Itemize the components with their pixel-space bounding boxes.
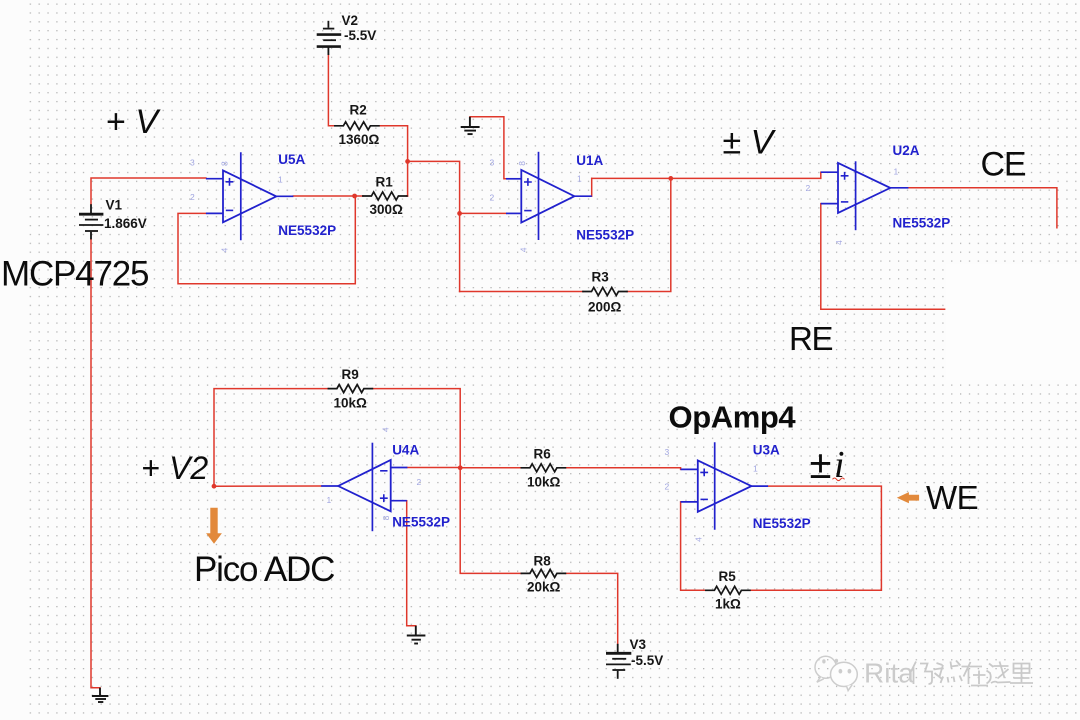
wire U1A output to U2A plus xyxy=(592,172,821,178)
svg-text:1kΩ: 1kΩ xyxy=(715,597,741,612)
svg-text:NE5532P: NE5532P xyxy=(576,228,634,243)
svg-text:3: 3 xyxy=(190,158,195,168)
svg-text:Rita: Rita xyxy=(864,658,914,689)
wire U4A plus down to ground G2 xyxy=(407,501,416,626)
wire U4A output to node B xyxy=(214,485,321,487)
svg-text:OpAmp4: OpAmp4 xyxy=(669,399,797,434)
resistor R9 xyxy=(328,385,372,393)
svg-text:R8: R8 xyxy=(534,554,552,569)
wire U2A minus to RE stub xyxy=(821,204,945,310)
svg-text:1: 1 xyxy=(753,464,758,474)
svg-text:MCP4725: MCP4725 xyxy=(1,255,148,294)
wire U2A output to CE xyxy=(908,188,1057,228)
resistor R8 xyxy=(521,569,565,577)
ground G2 (U4A plus input) xyxy=(407,626,426,644)
svg-text:1: 1 xyxy=(894,167,899,177)
wire U3A output loop to R5 xyxy=(750,486,882,590)
junction node C U4A minus xyxy=(458,465,463,470)
svg-text:V1: V1 xyxy=(106,198,123,213)
op-amp U5A xyxy=(206,152,294,240)
op-amp U2A xyxy=(821,161,909,230)
orange arrow down (Pico ADC) xyxy=(206,508,222,544)
resistor R5 xyxy=(706,586,750,594)
svg-text:2: 2 xyxy=(665,482,670,492)
wire U1A minus stub feed xyxy=(460,212,506,214)
svg-text:4: 4 xyxy=(834,240,844,245)
wire node C right R6 xyxy=(460,467,521,469)
watermark logo bubble left xyxy=(815,656,836,682)
svg-text:± V: ± V xyxy=(723,124,777,162)
watermark hanzi ran xyxy=(934,661,963,684)
svg-text:10kΩ: 10kΩ xyxy=(527,475,561,490)
wire R8 right to V3 xyxy=(565,573,617,643)
op-amp U3A xyxy=(681,442,769,530)
svg-text:3: 3 xyxy=(665,447,670,457)
svg-text:8: 8 xyxy=(517,161,527,166)
watermark hanzi zai xyxy=(962,662,989,686)
junction U1A output node xyxy=(668,176,673,181)
wire node B up to R9 xyxy=(214,389,328,487)
svg-text:CE: CE xyxy=(981,145,1026,183)
svg-text:NE5532P: NE5532P xyxy=(278,223,336,238)
svg-text:200Ω: 200Ω xyxy=(588,300,622,315)
wire R2 right to node A vertical xyxy=(379,126,408,196)
wire U1A output jog xyxy=(591,178,593,196)
wire R9 right down to U4A minus node xyxy=(372,389,460,468)
watermark hanzi li xyxy=(1010,664,1033,684)
svg-text:i: i xyxy=(834,444,845,486)
svg-text:3: 3 xyxy=(490,158,495,168)
svg-text:2: 2 xyxy=(190,192,195,202)
white patch right of RE xyxy=(946,264,1080,380)
svg-text:4: 4 xyxy=(519,247,529,252)
svg-text:4: 4 xyxy=(381,427,391,432)
battery V1 xyxy=(79,204,103,239)
svg-text:R6: R6 xyxy=(534,447,552,462)
svg-text:1: 1 xyxy=(327,495,332,505)
svg-text:U3A: U3A xyxy=(753,443,780,458)
watermark hanzi ren xyxy=(911,662,932,685)
ground G3 (V1 bottom) xyxy=(92,688,109,702)
resistor R1 xyxy=(363,192,407,200)
svg-text:4: 4 xyxy=(220,248,230,253)
svg-text:R9: R9 xyxy=(342,367,359,382)
wire R1 right short xyxy=(406,195,409,197)
svg-text:NE5532P: NE5532P xyxy=(893,216,951,231)
svg-text:V3: V3 xyxy=(630,637,647,652)
watermark logo bubble right xyxy=(831,662,858,690)
svg-text:R3: R3 xyxy=(592,270,610,285)
svg-text:8: 8 xyxy=(381,515,391,520)
wire U5A output to R1 xyxy=(293,195,363,197)
wire R5 left to U3A minus xyxy=(681,502,706,590)
red squiggle under i xyxy=(833,478,845,481)
watermark hanzi zhe xyxy=(987,662,1011,684)
svg-text:R2: R2 xyxy=(350,103,367,118)
wire R6 right to U3A plus xyxy=(565,468,680,470)
svg-text:U1A: U1A xyxy=(576,153,603,168)
svg-text:RE: RE xyxy=(789,320,833,357)
svg-text:NE5532P: NE5532P xyxy=(392,515,450,530)
svg-text:+ V2: + V2 xyxy=(142,450,209,486)
svg-text:1.866V: 1.866V xyxy=(104,216,147,231)
wire R3 right to U1A output node xyxy=(627,178,671,291)
junction U1A minus node xyxy=(457,211,462,216)
battery V3 xyxy=(606,644,631,679)
svg-text:1: 1 xyxy=(577,174,582,184)
watermark logo bubble left eyes xyxy=(822,659,838,664)
wire ground G1 to U1A plus xyxy=(470,117,506,179)
svg-text:R5: R5 xyxy=(719,569,737,584)
resistor R2 xyxy=(335,122,379,130)
svg-text:-5.5V: -5.5V xyxy=(631,653,663,668)
wire V1 to U5A plus input xyxy=(91,178,206,204)
op-amp U4A (mirrored) xyxy=(321,443,407,532)
svg-text:U4A: U4A xyxy=(392,443,419,458)
svg-text:+ V: + V xyxy=(106,103,161,141)
svg-text:300Ω: 300Ω xyxy=(370,202,404,217)
svg-text:2: 2 xyxy=(806,183,811,193)
wire U5A feedback loop xyxy=(178,196,355,284)
svg-text:2: 2 xyxy=(417,477,422,487)
wire V2 to R2 xyxy=(328,55,335,126)
svg-text:Pico ADC: Pico ADC xyxy=(194,550,334,589)
orange arrow left (WE) xyxy=(897,492,919,503)
svg-text:8: 8 xyxy=(220,161,230,166)
resistor R3 xyxy=(583,288,627,296)
svg-text:WE: WE xyxy=(926,479,978,516)
junction node B +V2 xyxy=(212,484,217,489)
svg-text:V2: V2 xyxy=(342,13,359,28)
wire V1 bottom to ground G3 xyxy=(91,239,100,688)
svg-text:U5A: U5A xyxy=(278,152,305,167)
op-amp U1A xyxy=(506,152,592,240)
battery V2 xyxy=(317,21,342,55)
svg-text:1360Ω: 1360Ω xyxy=(339,132,380,147)
svg-text:4: 4 xyxy=(694,537,704,542)
wire R3 bottom left run xyxy=(460,291,583,293)
svg-text:R1: R1 xyxy=(376,175,394,190)
junction R1 left / U5A feedback xyxy=(352,194,357,199)
svg-text:U2A: U2A xyxy=(893,143,920,158)
svg-text:20kΩ: 20kΩ xyxy=(527,580,561,595)
wire node A to U1A minus node xyxy=(408,161,460,291)
svg-text:1: 1 xyxy=(278,175,283,185)
watermark logo bubble right eyes xyxy=(839,669,852,674)
resistor R6 xyxy=(521,464,565,472)
svg-text:-5.5V: -5.5V xyxy=(344,28,376,43)
junction node A R1/R2 xyxy=(405,159,410,164)
wire node C down to R8 xyxy=(460,468,521,574)
svg-text:NE5532P: NE5532P xyxy=(753,516,811,531)
svg-text:10kΩ: 10kΩ xyxy=(334,396,368,411)
ground G1 (U1A plus input) xyxy=(461,117,480,134)
svg-text:±: ± xyxy=(810,443,832,487)
svg-text:2: 2 xyxy=(490,193,495,203)
wire U4A minus stub to node C xyxy=(407,467,460,469)
